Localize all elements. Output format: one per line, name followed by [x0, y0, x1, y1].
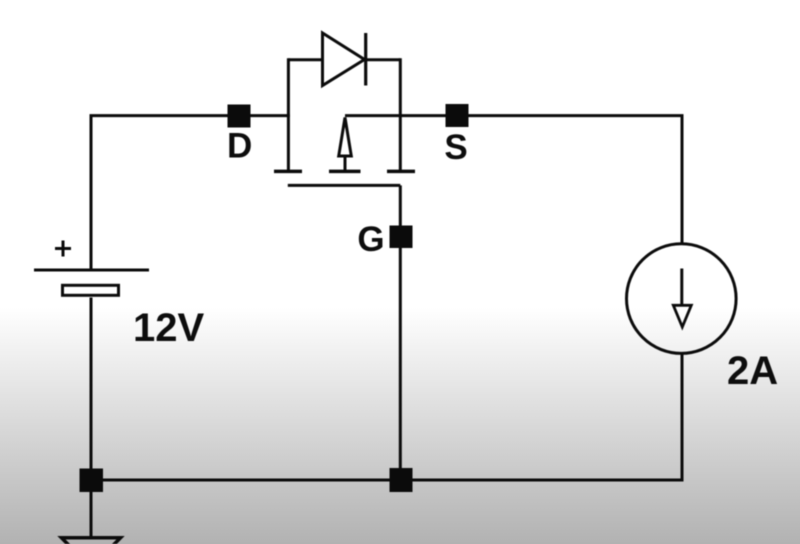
wire W2: battery negative down to ground junction — [90, 298, 93, 482]
svg-text:12V: 12V — [133, 306, 204, 350]
wire W1: battery positive up and across to MOSFET drain — [91, 116, 290, 270]
svg-text:S: S — [444, 128, 467, 167]
wire W4: gate plate down to bottom rail — [399, 185, 402, 481]
node D solder square — [228, 105, 251, 128]
node G solder square — [390, 226, 413, 249]
svg-text:2A: 2A — [727, 349, 778, 393]
current source I1 — [627, 244, 737, 354]
transistor Q1 (power NMOS) — [274, 58, 415, 185]
wire W6: MOSFET source across to current source — [345, 116, 682, 244]
battery V1 (12V) — [34, 241, 149, 296]
body diode D1 (anti-parallel across Q1) — [288, 33, 400, 86]
node S solder square — [446, 104, 469, 127]
svg-text:G: G — [357, 220, 384, 259]
junction node B solder square (gate return on bottom rail) — [390, 468, 413, 492]
svg-text:D: D — [227, 127, 252, 166]
junction node A solder square (battery / ground / bottom rail) — [80, 469, 104, 493]
wire W3: bottom rail — [90, 479, 683, 482]
ground symbol — [62, 480, 121, 544]
wire W7: current source down to bottom rail — [681, 353, 684, 482]
